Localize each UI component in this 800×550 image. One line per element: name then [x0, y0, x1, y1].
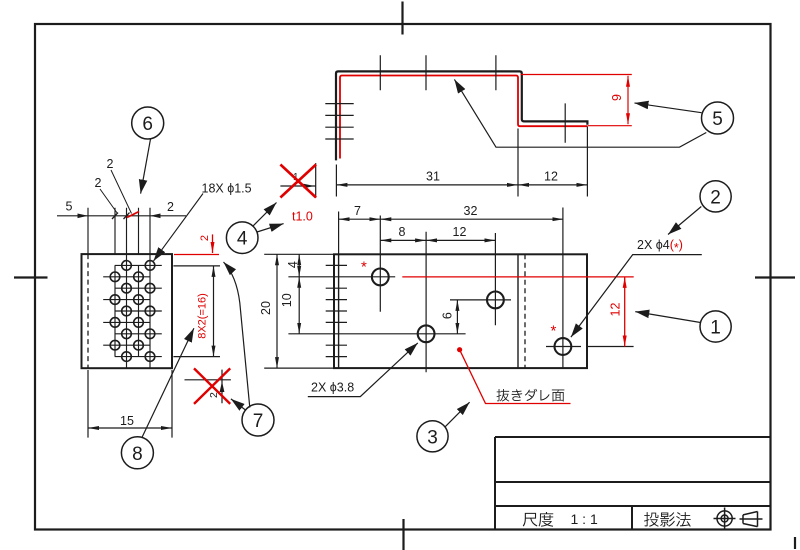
- svg-text:2: 2: [107, 157, 114, 171]
- svg-text:8: 8: [132, 444, 143, 465]
- svg-text:*: *: [361, 259, 367, 276]
- svg-text:18X ϕ1.5: 18X ϕ1.5: [202, 182, 252, 196]
- svg-text:12: 12: [453, 225, 467, 239]
- svg-text:5: 5: [712, 109, 723, 130]
- svg-text:6: 6: [142, 114, 153, 135]
- svg-text:32: 32: [464, 204, 478, 218]
- svg-text:6: 6: [441, 312, 455, 319]
- svg-text:1 : 1: 1 : 1: [571, 511, 598, 527]
- svg-text:*: *: [551, 323, 557, 340]
- svg-text:31: 31: [426, 170, 440, 184]
- svg-text:7: 7: [253, 411, 264, 432]
- svg-text:20: 20: [259, 301, 273, 315]
- svg-text:2: 2: [199, 235, 211, 241]
- svg-text:12: 12: [609, 303, 623, 317]
- svg-text:t1.0: t1.0: [292, 210, 313, 224]
- svg-text:2: 2: [95, 176, 102, 190]
- svg-text:3: 3: [427, 427, 438, 448]
- svg-text:2X ϕ3.8: 2X ϕ3.8: [311, 381, 354, 395]
- svg-text:12: 12: [544, 170, 558, 184]
- svg-text:10: 10: [280, 293, 294, 307]
- svg-text:8X2(=16): 8X2(=16): [197, 293, 209, 339]
- svg-text:8: 8: [399, 225, 406, 239]
- svg-text:5: 5: [66, 200, 73, 214]
- svg-text:15: 15: [120, 414, 134, 428]
- svg-text:1: 1: [710, 318, 721, 339]
- svg-text:4: 4: [237, 229, 248, 250]
- svg-text:7: 7: [354, 204, 361, 218]
- svg-text:2: 2: [710, 187, 721, 208]
- svg-text:9: 9: [610, 94, 624, 101]
- svg-text:4: 4: [286, 261, 300, 268]
- svg-text:2: 2: [167, 200, 174, 214]
